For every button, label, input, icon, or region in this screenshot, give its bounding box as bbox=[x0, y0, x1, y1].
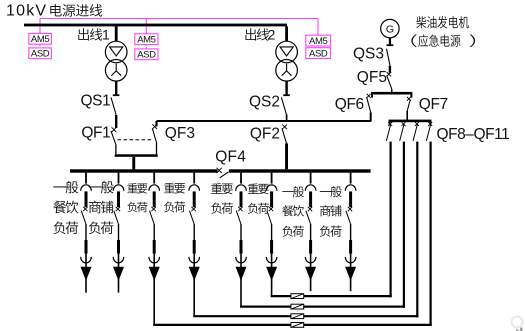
svg-text:ASD: ASD bbox=[309, 48, 328, 59]
svg-text:QS1: QS1 bbox=[80, 92, 110, 109]
svg-text:2: 2 bbox=[268, 27, 276, 43]
svg-text:QF3: QF3 bbox=[165, 125, 195, 142]
svg-text:AM5: AM5 bbox=[309, 36, 327, 47]
svg-text:QF1: QF1 bbox=[81, 125, 110, 142]
svg-text:ASD: ASD bbox=[31, 49, 50, 60]
svg-text:AM5: AM5 bbox=[137, 35, 155, 46]
svg-text:10kV: 10kV bbox=[6, 3, 47, 20]
svg-text:QF8–QF11: QF8–QF11 bbox=[437, 126, 510, 143]
svg-text:QF5: QF5 bbox=[357, 69, 387, 86]
svg-text:1: 1 bbox=[102, 27, 110, 43]
svg-text:QF2: QF2 bbox=[250, 125, 280, 142]
svg-text:G: G bbox=[386, 23, 394, 35]
svg-text:ASD: ASD bbox=[137, 50, 156, 61]
svg-text:QS3: QS3 bbox=[353, 46, 384, 63]
svg-text:QS2: QS2 bbox=[249, 93, 280, 110]
svg-text:AM5: AM5 bbox=[31, 34, 49, 45]
svg-text:QF6: QF6 bbox=[335, 96, 364, 113]
svg-text:QF4: QF4 bbox=[215, 148, 246, 165]
svg-text:QF7: QF7 bbox=[419, 96, 448, 113]
